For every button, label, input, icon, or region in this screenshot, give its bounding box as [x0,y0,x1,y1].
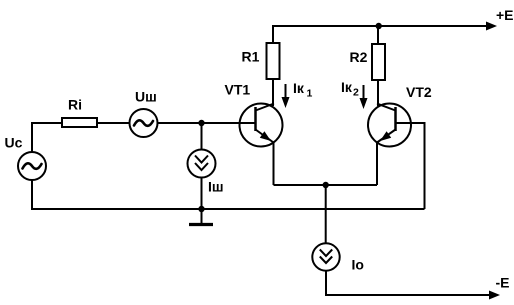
svg-text:R1: R1 [242,49,260,65]
svg-text:1: 1 [307,88,313,100]
svg-text:+E: +E [496,7,514,23]
svg-text:Iш: Iш [208,179,224,195]
svg-text:R2: R2 [350,49,368,65]
svg-text:2: 2 [353,87,359,99]
svg-text:Io: Io [352,257,364,273]
svg-text:Uш: Uш [135,89,157,105]
svg-text:Iк: Iк [341,79,353,95]
svg-text:Uc: Uc [5,135,23,151]
svg-text:Iк: Iк [293,80,305,96]
svg-text:-E: -E [496,275,510,291]
svg-text:VT1: VT1 [225,82,251,98]
svg-text:Ri: Ri [68,97,82,113]
svg-text:VT2: VT2 [406,84,432,100]
